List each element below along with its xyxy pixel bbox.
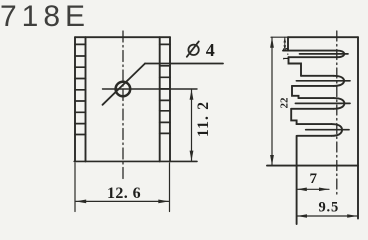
fin 4 upper line — [297, 123, 332, 125]
fin 2 cap — [334, 76, 345, 86]
front view left inner edge — [85, 37, 87, 161]
22 bottom arrow — [270, 155, 274, 165]
7 left arrow — [297, 188, 307, 192]
fin 3 lower line — [291, 108, 333, 110]
svg-text:7: 7 — [310, 171, 318, 187]
1.5 mini dimension — [284, 37, 286, 50]
mounting hole — [116, 82, 131, 97]
svg-text:11. 2: 11. 2 — [195, 101, 212, 137]
svg-text:1.5: 1.5 — [281, 46, 290, 60]
fin 3 midline — [295, 102, 350, 104]
fin 1 midline — [300, 53, 349, 55]
fold fin1-fin2 — [289, 57, 302, 76]
11.2 bottom arrow — [190, 151, 194, 161]
side centerline (dash-dot) — [336, 31, 338, 196]
fin 2 upper line — [301, 75, 334, 77]
fin 1 lower line — [289, 56, 337, 58]
fin 1 upper line — [283, 50, 337, 52]
front view right inner edge — [159, 37, 161, 161]
serration ticks right strip — [160, 44, 170, 133]
fin 1 cap — [337, 51, 345, 58]
fold fin2-fin3 — [292, 86, 299, 98]
22 dimension line — [271, 37, 273, 165]
leader diagonal to hole — [103, 64, 146, 105]
left vertical top section — [287, 37, 289, 50]
side view top edge — [288, 36, 358, 38]
12.6 left arrow — [76, 200, 87, 204]
11.2 top arrow — [190, 89, 194, 99]
fin 4 midline — [306, 129, 349, 131]
svg-text:22: 22 — [279, 97, 291, 109]
9.5 right arrow — [347, 214, 357, 218]
fold fin3-fin4 — [291, 109, 296, 124]
serration ticks left strip — [75, 44, 86, 134]
svg-text:9.5: 9.5 — [319, 200, 340, 216]
front view top edge — [75, 36, 170, 38]
9.5 dimension line — [297, 215, 358, 217]
12.6 extension left — [74, 163, 76, 212]
front centerline (dash-dot vertical) — [122, 31, 124, 182]
9.5 left arrow — [297, 214, 307, 218]
front view right outer edge — [169, 37, 171, 161]
fin 2 lower line — [292, 85, 334, 87]
fin 2 midline — [296, 80, 350, 82]
12.6 extension right — [169, 163, 171, 212]
leader horizontal under label — [145, 63, 223, 65]
7 dimension line — [297, 188, 329, 190]
front view bottom edge (extends right as 11.2 extension) — [74, 160, 197, 162]
side view right edge — [357, 37, 359, 218]
svg-text:12. 6: 12. 6 — [107, 185, 141, 202]
top edge extension for 22 dim — [271, 36, 288, 38]
diameter symbol — [188, 45, 198, 55]
base top long line / 22 extension — [267, 165, 358, 167]
title 718E — [0, 2, 90, 32]
11.2 dimension line — [191, 89, 193, 161]
fin 4 cap — [332, 124, 343, 136]
12.6 dimension line — [76, 200, 169, 202]
fin 3 upper line — [299, 97, 334, 99]
fin 4 lower line — [297, 135, 331, 137]
fin 3 cap — [334, 98, 345, 109]
12.6 right arrow — [158, 200, 169, 204]
7 right arrow — [319, 188, 329, 192]
22 top arrow — [270, 38, 274, 48]
front view left outer edge — [74, 37, 76, 161]
svg-text:4: 4 — [206, 40, 215, 60]
base left edge — [296, 136, 298, 224]
hole horizontal centerline / 11.2 extension — [103, 88, 198, 90]
